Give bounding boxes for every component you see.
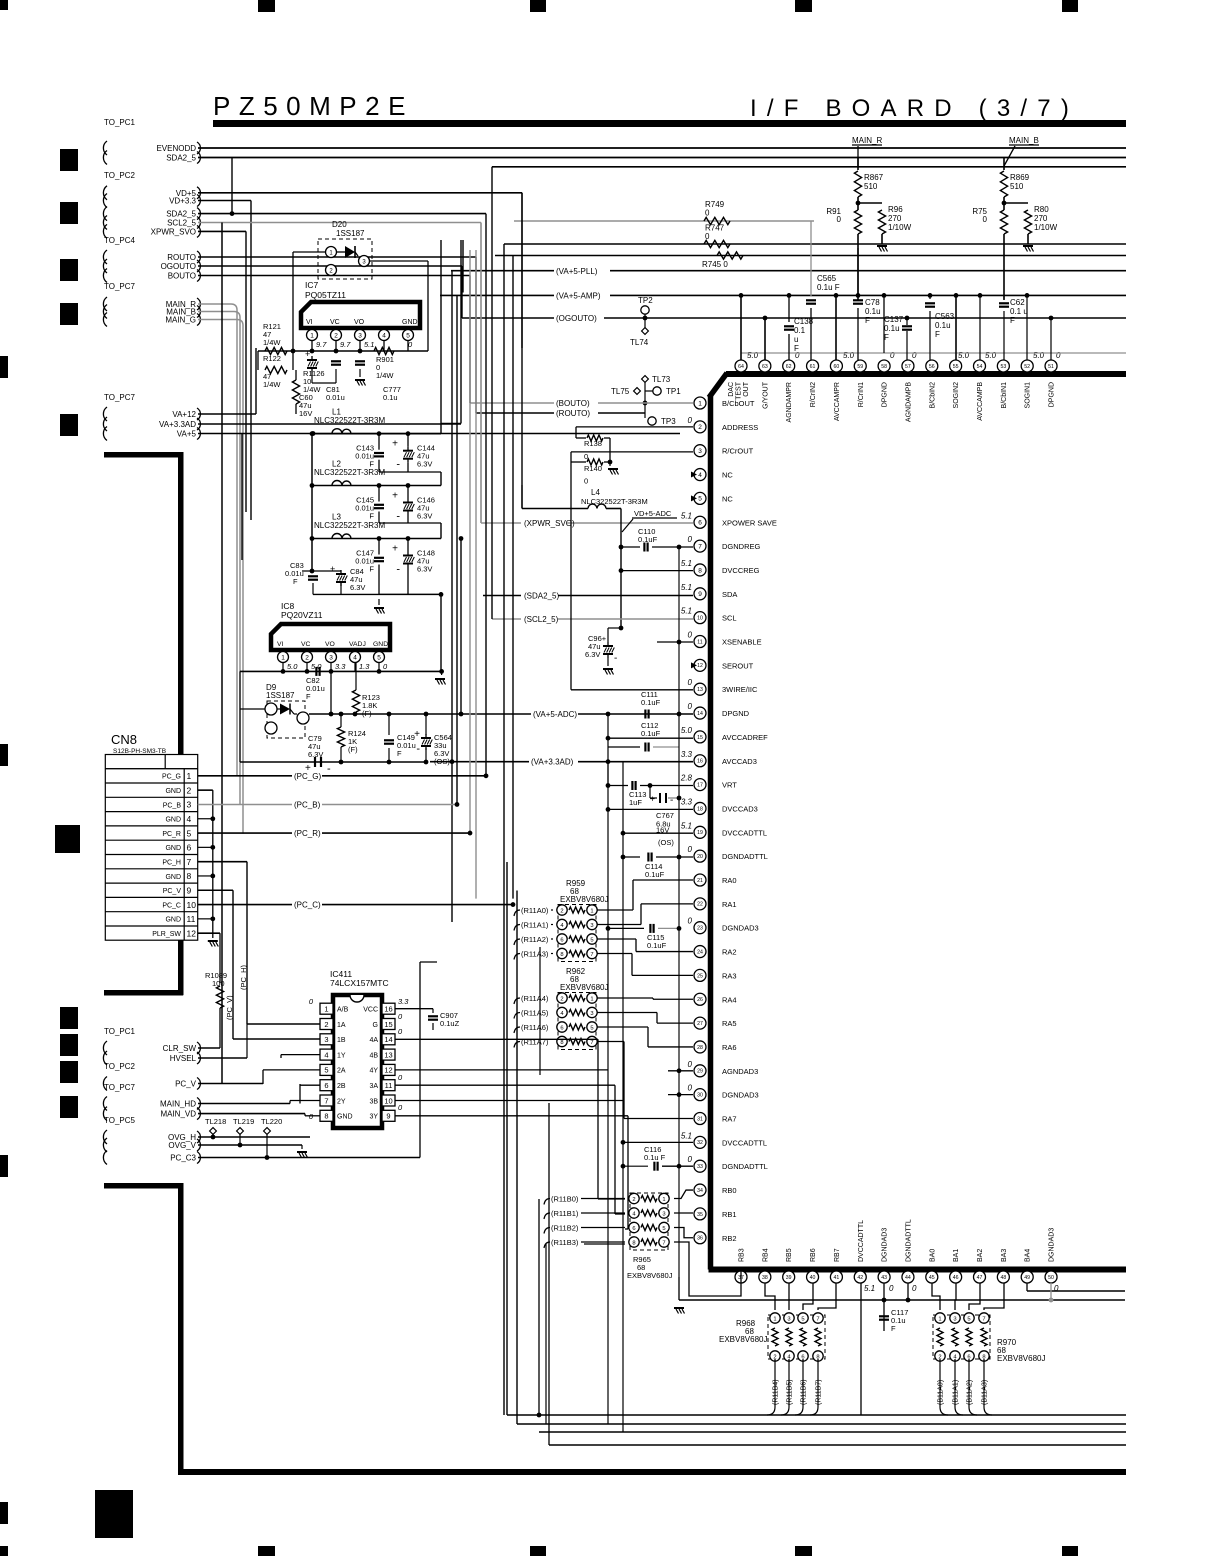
svg-text:32: 32: [697, 1140, 703, 1146]
svg-text:(SCL2_5): (SCL2_5): [524, 615, 559, 624]
svg-text:5: 5: [662, 1226, 665, 1232]
svg-text:6.3V: 6.3V: [585, 650, 600, 659]
svg-text:52: 52: [1024, 364, 1030, 370]
svg-text:DGNDAD3: DGNDAD3: [882, 1228, 889, 1262]
svg-text:GND: GND: [402, 319, 418, 326]
svg-text:34: 34: [697, 1188, 703, 1194]
svg-text:R96: R96: [888, 205, 903, 214]
svg-text:RA2: RA2: [722, 948, 737, 957]
svg-text:BA2: BA2: [977, 1249, 984, 1262]
svg-text:TO_PC2: TO_PC2: [104, 171, 136, 180]
svg-text:4: 4: [698, 472, 702, 479]
svg-text:2: 2: [560, 996, 563, 1002]
svg-text:510: 510: [1010, 182, 1024, 191]
svg-text:61: 61: [810, 364, 816, 370]
svg-text:RB7: RB7: [834, 1248, 841, 1262]
svg-text:0: 0: [837, 215, 842, 224]
svg-text:0: 0: [912, 1284, 917, 1293]
svg-text:+: +: [650, 794, 655, 804]
svg-text:55: 55: [953, 364, 959, 370]
svg-text:EXBV8V680J: EXBV8V680J: [997, 1354, 1045, 1363]
svg-text:5: 5: [377, 654, 381, 661]
svg-text:20: 20: [697, 854, 703, 860]
svg-text:0.1u F: 0.1u F: [644, 1153, 666, 1162]
svg-text:NC: NC: [722, 494, 733, 503]
svg-text:4: 4: [382, 332, 386, 339]
svg-text:(ROUTO): (ROUTO): [556, 409, 590, 418]
svg-text:2Y: 2Y: [337, 1098, 346, 1105]
svg-text:5: 5: [406, 332, 410, 339]
svg-text:63: 63: [762, 364, 768, 370]
svg-text:DVCCAD3: DVCCAD3: [722, 804, 758, 813]
svg-text:F: F: [1010, 316, 1015, 325]
svg-text:-: -: [396, 511, 400, 523]
svg-text:1.3: 1.3: [359, 662, 370, 671]
svg-text:TP3: TP3: [661, 417, 676, 426]
svg-text:31: 31: [697, 1116, 703, 1122]
svg-text:0: 0: [983, 215, 988, 224]
svg-text:ROUTO: ROUTO: [167, 253, 196, 262]
svg-text:7: 7: [982, 1316, 985, 1322]
svg-text:5: 5: [801, 1316, 804, 1322]
svg-text:0.1uF: 0.1uF: [645, 870, 665, 879]
svg-text:VI: VI: [306, 319, 313, 326]
svg-text:3: 3: [358, 332, 362, 339]
svg-text:C78: C78: [865, 298, 880, 307]
svg-text:BA4: BA4: [1025, 1249, 1032, 1262]
svg-text:-: -: [416, 743, 420, 755]
svg-text:NLC322522T-3R3M: NLC322522T-3R3M: [314, 468, 385, 477]
svg-text:(R11A1): (R11A1): [521, 921, 549, 930]
svg-text:2: 2: [560, 908, 563, 914]
svg-text:VD+3.3: VD+3.3: [169, 197, 196, 206]
svg-text:GND: GND: [165, 874, 181, 881]
svg-text:5.0: 5.0: [985, 351, 997, 360]
svg-text:8: 8: [187, 871, 192, 881]
svg-text:0: 0: [912, 351, 917, 360]
svg-text:18: 18: [697, 806, 703, 812]
svg-text:3Y: 3Y: [369, 1114, 378, 1121]
svg-text:G: G: [373, 1022, 378, 1029]
svg-text:5: 5: [324, 1066, 328, 1075]
svg-text:GND: GND: [165, 917, 181, 924]
svg-text:16V: 16V: [299, 409, 312, 418]
svg-text:6.3V: 6.3V: [417, 512, 432, 521]
svg-text:(R11A4): (R11A4): [521, 994, 549, 1003]
svg-text:6: 6: [187, 843, 192, 853]
svg-text:C137: C137: [884, 315, 904, 324]
svg-text:PC_V: PC_V: [163, 888, 182, 895]
svg-text:6: 6: [324, 1081, 328, 1090]
svg-text:DAC: DAC: [728, 382, 735, 397]
svg-text:u: u: [794, 335, 798, 344]
svg-text:5: 5: [698, 496, 702, 503]
svg-text:RA6: RA6: [722, 1043, 737, 1052]
svg-text:1SS187: 1SS187: [266, 691, 295, 700]
svg-text:VCC: VCC: [363, 1007, 378, 1014]
svg-text:5.1: 5.1: [681, 583, 692, 592]
svg-text:AGNDAD3: AGNDAD3: [722, 1067, 758, 1076]
svg-text:42: 42: [857, 1275, 863, 1281]
svg-text:13: 13: [384, 1050, 392, 1059]
svg-text:RA3: RA3: [722, 971, 737, 980]
svg-text:12: 12: [697, 663, 703, 669]
svg-text:1: 1: [662, 1197, 665, 1203]
svg-text:2A: 2A: [337, 1068, 346, 1075]
svg-text:3: 3: [324, 1035, 328, 1044]
svg-text:5.1: 5.1: [681, 607, 692, 616]
svg-text:PC_G: PC_G: [162, 774, 181, 781]
svg-text:5.0: 5.0: [843, 351, 855, 360]
svg-text:2: 2: [324, 1020, 328, 1029]
svg-text:270: 270: [888, 214, 902, 223]
svg-text:GND: GND: [165, 817, 181, 824]
svg-text:5.0: 5.0: [1033, 351, 1045, 360]
svg-text:1Y: 1Y: [337, 1052, 346, 1059]
svg-text:3: 3: [590, 1011, 593, 1017]
svg-text:11: 11: [697, 639, 702, 645]
svg-text:0.01u: 0.01u: [326, 393, 345, 402]
svg-text:5.0: 5.0: [681, 726, 693, 735]
svg-text:TEST: TEST: [736, 381, 743, 400]
svg-text:3WIRE/IIC: 3WIRE/IIC: [722, 685, 758, 694]
svg-text:GND: GND: [373, 641, 388, 648]
svg-text:(R11B0): (R11B0): [551, 1195, 579, 1204]
svg-text:DVCCADTTL: DVCCADTTL: [722, 828, 767, 837]
svg-text:R869: R869: [1010, 173, 1030, 182]
svg-text:VA+3.3AD: VA+3.3AD: [159, 420, 196, 429]
svg-text:1: 1: [590, 996, 593, 1002]
svg-text:MAIN_B: MAIN_B: [1009, 136, 1039, 145]
svg-text:BA1: BA1: [953, 1249, 960, 1262]
svg-text:36: 36: [697, 1236, 703, 1242]
svg-text:GND: GND: [165, 845, 181, 852]
svg-text:6: 6: [560, 937, 563, 943]
svg-text:(SDA2_5): (SDA2_5): [524, 592, 559, 601]
svg-text:VC: VC: [330, 319, 340, 326]
svg-text:48: 48: [1000, 1275, 1006, 1281]
svg-text:D20: D20: [332, 220, 347, 229]
svg-text:16: 16: [697, 759, 703, 765]
svg-text:SDA2_5: SDA2_5: [166, 154, 196, 163]
svg-text:TL75: TL75: [611, 387, 630, 396]
svg-text:4Y: 4Y: [369, 1068, 378, 1075]
svg-text:0: 0: [688, 917, 693, 926]
svg-text:2: 2: [632, 1197, 635, 1203]
svg-text:0.1u: 0.1u: [383, 393, 398, 402]
svg-text:56: 56: [929, 364, 935, 370]
svg-text:RA4: RA4: [722, 995, 737, 1004]
svg-text:5.1: 5.1: [681, 1131, 692, 1140]
svg-text:6.3V: 6.3V: [417, 460, 432, 469]
svg-text:RB5: RB5: [786, 1248, 793, 1262]
svg-text:9: 9: [698, 591, 702, 598]
svg-text:TO_PC7: TO_PC7: [104, 393, 136, 402]
svg-text:(R11A0): (R11A0): [521, 906, 549, 915]
svg-text:50: 50: [1048, 1275, 1054, 1281]
svg-text:5: 5: [590, 937, 593, 943]
svg-text:5.0: 5.0: [287, 662, 298, 671]
svg-text:RB1: RB1: [722, 1210, 737, 1219]
svg-text:SDA: SDA: [722, 590, 737, 599]
svg-text:F: F: [397, 749, 402, 758]
svg-text:3.3: 3.3: [681, 797, 693, 806]
svg-text:3: 3: [590, 923, 593, 929]
svg-text:28: 28: [697, 1045, 703, 1051]
svg-text:0: 0: [890, 351, 895, 360]
svg-text:8: 8: [632, 1240, 635, 1246]
svg-text:PC_R: PC_R: [162, 831, 181, 838]
svg-text:PC_V: PC_V: [175, 1080, 197, 1089]
svg-text:VC: VC: [301, 641, 311, 648]
svg-text:AVCCAMPB: AVCCAMPB: [977, 382, 984, 421]
svg-text:1: 1: [698, 400, 702, 407]
svg-text:L4: L4: [591, 488, 600, 497]
svg-text:TL74: TL74: [630, 338, 649, 347]
svg-text:46: 46: [953, 1275, 959, 1281]
svg-text:EXBV8V680J: EXBV8V680J: [560, 983, 608, 992]
svg-text:(R11A6): (R11A6): [521, 1023, 549, 1032]
svg-text:17: 17: [697, 782, 703, 788]
svg-text:PLR_SW: PLR_SW: [152, 931, 181, 938]
svg-text:53: 53: [1000, 364, 1006, 370]
svg-text:TL219: TL219: [233, 1117, 254, 1126]
svg-text:0: 0: [1056, 351, 1061, 360]
svg-text:1SS187: 1SS187: [336, 229, 365, 238]
svg-text:MAIN_HD: MAIN_HD: [160, 1100, 196, 1109]
svg-text:OGOUTO: OGOUTO: [161, 262, 196, 271]
svg-text:DPGND: DPGND: [722, 709, 750, 718]
svg-text:3: 3: [329, 654, 333, 661]
svg-text:VO: VO: [354, 319, 365, 326]
svg-text:3: 3: [953, 1316, 956, 1322]
svg-text:1: 1: [310, 332, 314, 339]
svg-text:0: 0: [688, 678, 693, 687]
svg-text:1: 1: [938, 1316, 941, 1322]
svg-text:(VA+5-ADC): (VA+5-ADC): [533, 710, 577, 719]
svg-text:DGNDREG: DGNDREG: [722, 542, 761, 551]
svg-text:0: 0: [705, 232, 710, 241]
svg-text:C565: C565: [817, 274, 837, 283]
svg-text:7: 7: [590, 1040, 593, 1046]
svg-text:SCL: SCL: [722, 614, 737, 623]
svg-text:+: +: [305, 349, 310, 359]
svg-text:+: +: [414, 729, 420, 740]
svg-text:49: 49: [1024, 1275, 1030, 1281]
svg-text:DPGND: DPGND: [882, 382, 889, 407]
svg-text:3.3: 3.3: [681, 750, 693, 759]
svg-text:RA5: RA5: [722, 1019, 737, 1028]
svg-text:RB6: RB6: [810, 1248, 817, 1262]
svg-text:8: 8: [560, 1040, 563, 1046]
svg-text:DGNDADTTL: DGNDADTTL: [722, 1162, 768, 1171]
svg-text:R80: R80: [1034, 205, 1049, 214]
svg-text:54: 54: [977, 364, 983, 370]
svg-text:2: 2: [698, 424, 702, 431]
svg-text:DVCCREG: DVCCREG: [722, 566, 760, 575]
svg-text:SCL2_5: SCL2_5: [167, 219, 196, 228]
svg-text:1A: 1A: [337, 1022, 346, 1029]
svg-text:-: -: [614, 653, 617, 664]
svg-text:RA7: RA7: [722, 1115, 737, 1124]
svg-text:44: 44: [905, 1275, 911, 1281]
svg-text:F: F: [794, 344, 799, 353]
svg-text:(F): (F): [348, 745, 358, 754]
svg-text:(PC_R): (PC_R): [294, 829, 321, 838]
svg-text:OUT: OUT: [743, 381, 750, 397]
svg-text:11: 11: [187, 914, 196, 924]
svg-text:1/10W: 1/10W: [888, 223, 912, 232]
svg-text:VO: VO: [325, 641, 335, 648]
svg-text:RA1: RA1: [722, 900, 737, 909]
svg-text:12: 12: [187, 928, 197, 938]
svg-text:DVCCADTTL: DVCCADTTL: [858, 1220, 865, 1262]
svg-text:RB2: RB2: [722, 1234, 737, 1243]
svg-text:DGNDADTTL: DGNDADTTL: [905, 1219, 912, 1262]
svg-text:4A: 4A: [369, 1037, 378, 1044]
svg-text:(PC_G): (PC_G): [294, 772, 321, 781]
svg-text:5.1: 5.1: [681, 511, 692, 520]
svg-text:5.1: 5.1: [681, 821, 692, 830]
svg-text:43: 43: [881, 1275, 887, 1281]
svg-text:-: -: [396, 564, 400, 576]
svg-text:6.3V: 6.3V: [350, 583, 365, 592]
svg-text:MAIN_G: MAIN_G: [165, 316, 196, 325]
svg-text:EXBV8V680J: EXBV8V680J: [627, 1271, 673, 1280]
svg-text:+: +: [392, 544, 398, 555]
svg-text:1/4W: 1/4W: [263, 380, 281, 389]
svg-text:0.1uF: 0.1uF: [641, 698, 661, 707]
svg-text:PQ20VZ11: PQ20VZ11: [281, 610, 323, 620]
svg-text:R140: R140: [584, 464, 602, 473]
svg-text:AGNDAMPB: AGNDAMPB: [905, 382, 912, 422]
svg-text:TO_PC1: TO_PC1: [104, 1027, 136, 1036]
svg-text:DGNDAD3: DGNDAD3: [722, 924, 759, 933]
svg-text:0: 0: [584, 452, 588, 461]
svg-text:40: 40: [810, 1275, 816, 1281]
svg-text:VD+5-ADC: VD+5-ADC: [634, 509, 672, 518]
svg-text:0: 0: [688, 702, 693, 711]
svg-text:XSENABLE: XSENABLE: [722, 638, 762, 647]
svg-text:5: 5: [590, 1025, 593, 1031]
svg-text:F: F: [935, 330, 940, 339]
svg-text:41: 41: [834, 1275, 840, 1281]
svg-text:39: 39: [786, 1275, 792, 1281]
svg-text:(PC_B): (PC_B): [294, 800, 321, 809]
svg-text:AVCCAD3: AVCCAD3: [722, 757, 757, 766]
svg-text:0: 0: [584, 477, 588, 486]
svg-text:0: 0: [688, 1084, 693, 1093]
svg-text:NLC322522T-3R3M: NLC322522T-3R3M: [314, 521, 385, 530]
svg-text:9: 9: [386, 1112, 390, 1121]
svg-text:1/4W: 1/4W: [263, 338, 281, 347]
svg-text:XPWR_SVO: XPWR_SVO: [151, 227, 196, 236]
svg-text:58: 58: [881, 364, 887, 370]
svg-text:6.3V: 6.3V: [417, 565, 432, 574]
svg-text:A/B: A/B: [337, 1007, 349, 1014]
svg-text:F: F: [891, 1324, 896, 1333]
svg-text:3: 3: [787, 1316, 790, 1322]
svg-text:15: 15: [697, 735, 703, 741]
svg-text:PQ05TZ11: PQ05TZ11: [305, 290, 346, 300]
svg-text:60: 60: [834, 364, 840, 370]
svg-text:2: 2: [305, 654, 309, 661]
svg-text:B/CbIN1: B/CbIN1: [1001, 382, 1008, 409]
svg-text:BA3: BA3: [1001, 1249, 1008, 1262]
svg-text:64: 64: [738, 364, 744, 370]
svg-text:45: 45: [929, 1275, 935, 1281]
svg-text:-: -: [327, 763, 331, 775]
svg-text:R/CrOUT: R/CrOUT: [722, 447, 754, 456]
svg-text:6: 6: [560, 1025, 563, 1031]
svg-text:+: +: [392, 439, 398, 450]
svg-text:PC_C: PC_C: [162, 902, 181, 909]
svg-text:33: 33: [697, 1164, 703, 1170]
svg-text:TO_PC7: TO_PC7: [104, 1083, 136, 1092]
svg-text:AGNDAMPR: AGNDAMPR: [786, 382, 793, 422]
svg-text:VRT: VRT: [722, 781, 737, 790]
svg-text:3B: 3B: [369, 1098, 378, 1105]
svg-text:F: F: [369, 565, 374, 574]
svg-text:F: F: [865, 316, 870, 325]
svg-text:DGNDADTTL: DGNDADTTL: [722, 852, 768, 861]
svg-text:29: 29: [697, 1069, 703, 1075]
svg-text:(R11B4): (R11B4): [773, 1379, 780, 1405]
svg-text:3A: 3A: [369, 1083, 378, 1090]
svg-text:0: 0: [688, 631, 693, 640]
svg-text:TO_PC5: TO_PC5: [104, 1116, 136, 1125]
svg-text:RB3: RB3: [739, 1248, 746, 1262]
svg-text:TP2: TP2: [638, 296, 653, 305]
svg-text:(VA+3.3AD): (VA+3.3AD): [531, 758, 574, 767]
svg-text:-: -: [396, 459, 400, 471]
svg-text:IC7: IC7: [305, 280, 319, 290]
svg-text:RA0: RA0: [722, 876, 737, 885]
svg-text:F: F: [306, 692, 311, 701]
svg-text:10: 10: [384, 1096, 392, 1105]
svg-text:(PC_V): (PC_V): [225, 995, 234, 1020]
svg-text:6: 6: [698, 520, 702, 527]
svg-text:47: 47: [977, 1275, 983, 1281]
svg-text:7: 7: [187, 857, 192, 867]
svg-text:PC_B: PC_B: [163, 802, 182, 809]
svg-text:NC: NC: [722, 471, 733, 480]
svg-text:3.3: 3.3: [398, 997, 409, 1006]
svg-text:3: 3: [698, 448, 702, 455]
svg-text:R745 0: R745 0: [702, 260, 728, 269]
svg-text:DGNDAD3: DGNDAD3: [722, 1091, 759, 1100]
svg-text:TO_PC7: TO_PC7: [104, 282, 136, 291]
svg-text:+: +: [392, 491, 398, 502]
svg-text:TL73: TL73: [652, 375, 671, 384]
svg-text:F: F: [369, 512, 374, 521]
svg-text:59: 59: [857, 364, 863, 370]
svg-text:(R11A3): (R11A3): [521, 950, 549, 959]
svg-text:XPOWER SAVE: XPOWER SAVE: [722, 518, 777, 527]
svg-text:ADDRESS: ADDRESS: [722, 423, 758, 432]
svg-text:(B11A2): (B11A2): [967, 1380, 974, 1405]
svg-text:30: 30: [697, 1093, 703, 1099]
svg-text:(XPWR_SVO): (XPWR_SVO): [524, 519, 575, 528]
svg-text:74LCX157MTC: 74LCX157MTC: [330, 978, 389, 988]
svg-text:(R11B3): (R11B3): [551, 1238, 579, 1247]
svg-text:0: 0: [688, 535, 693, 544]
svg-text:510: 510: [864, 182, 878, 191]
svg-text:4: 4: [187, 814, 192, 824]
svg-text:VADJ: VADJ: [349, 641, 366, 648]
svg-text:R867: R867: [864, 173, 884, 182]
svg-text:VI: VI: [277, 641, 284, 648]
